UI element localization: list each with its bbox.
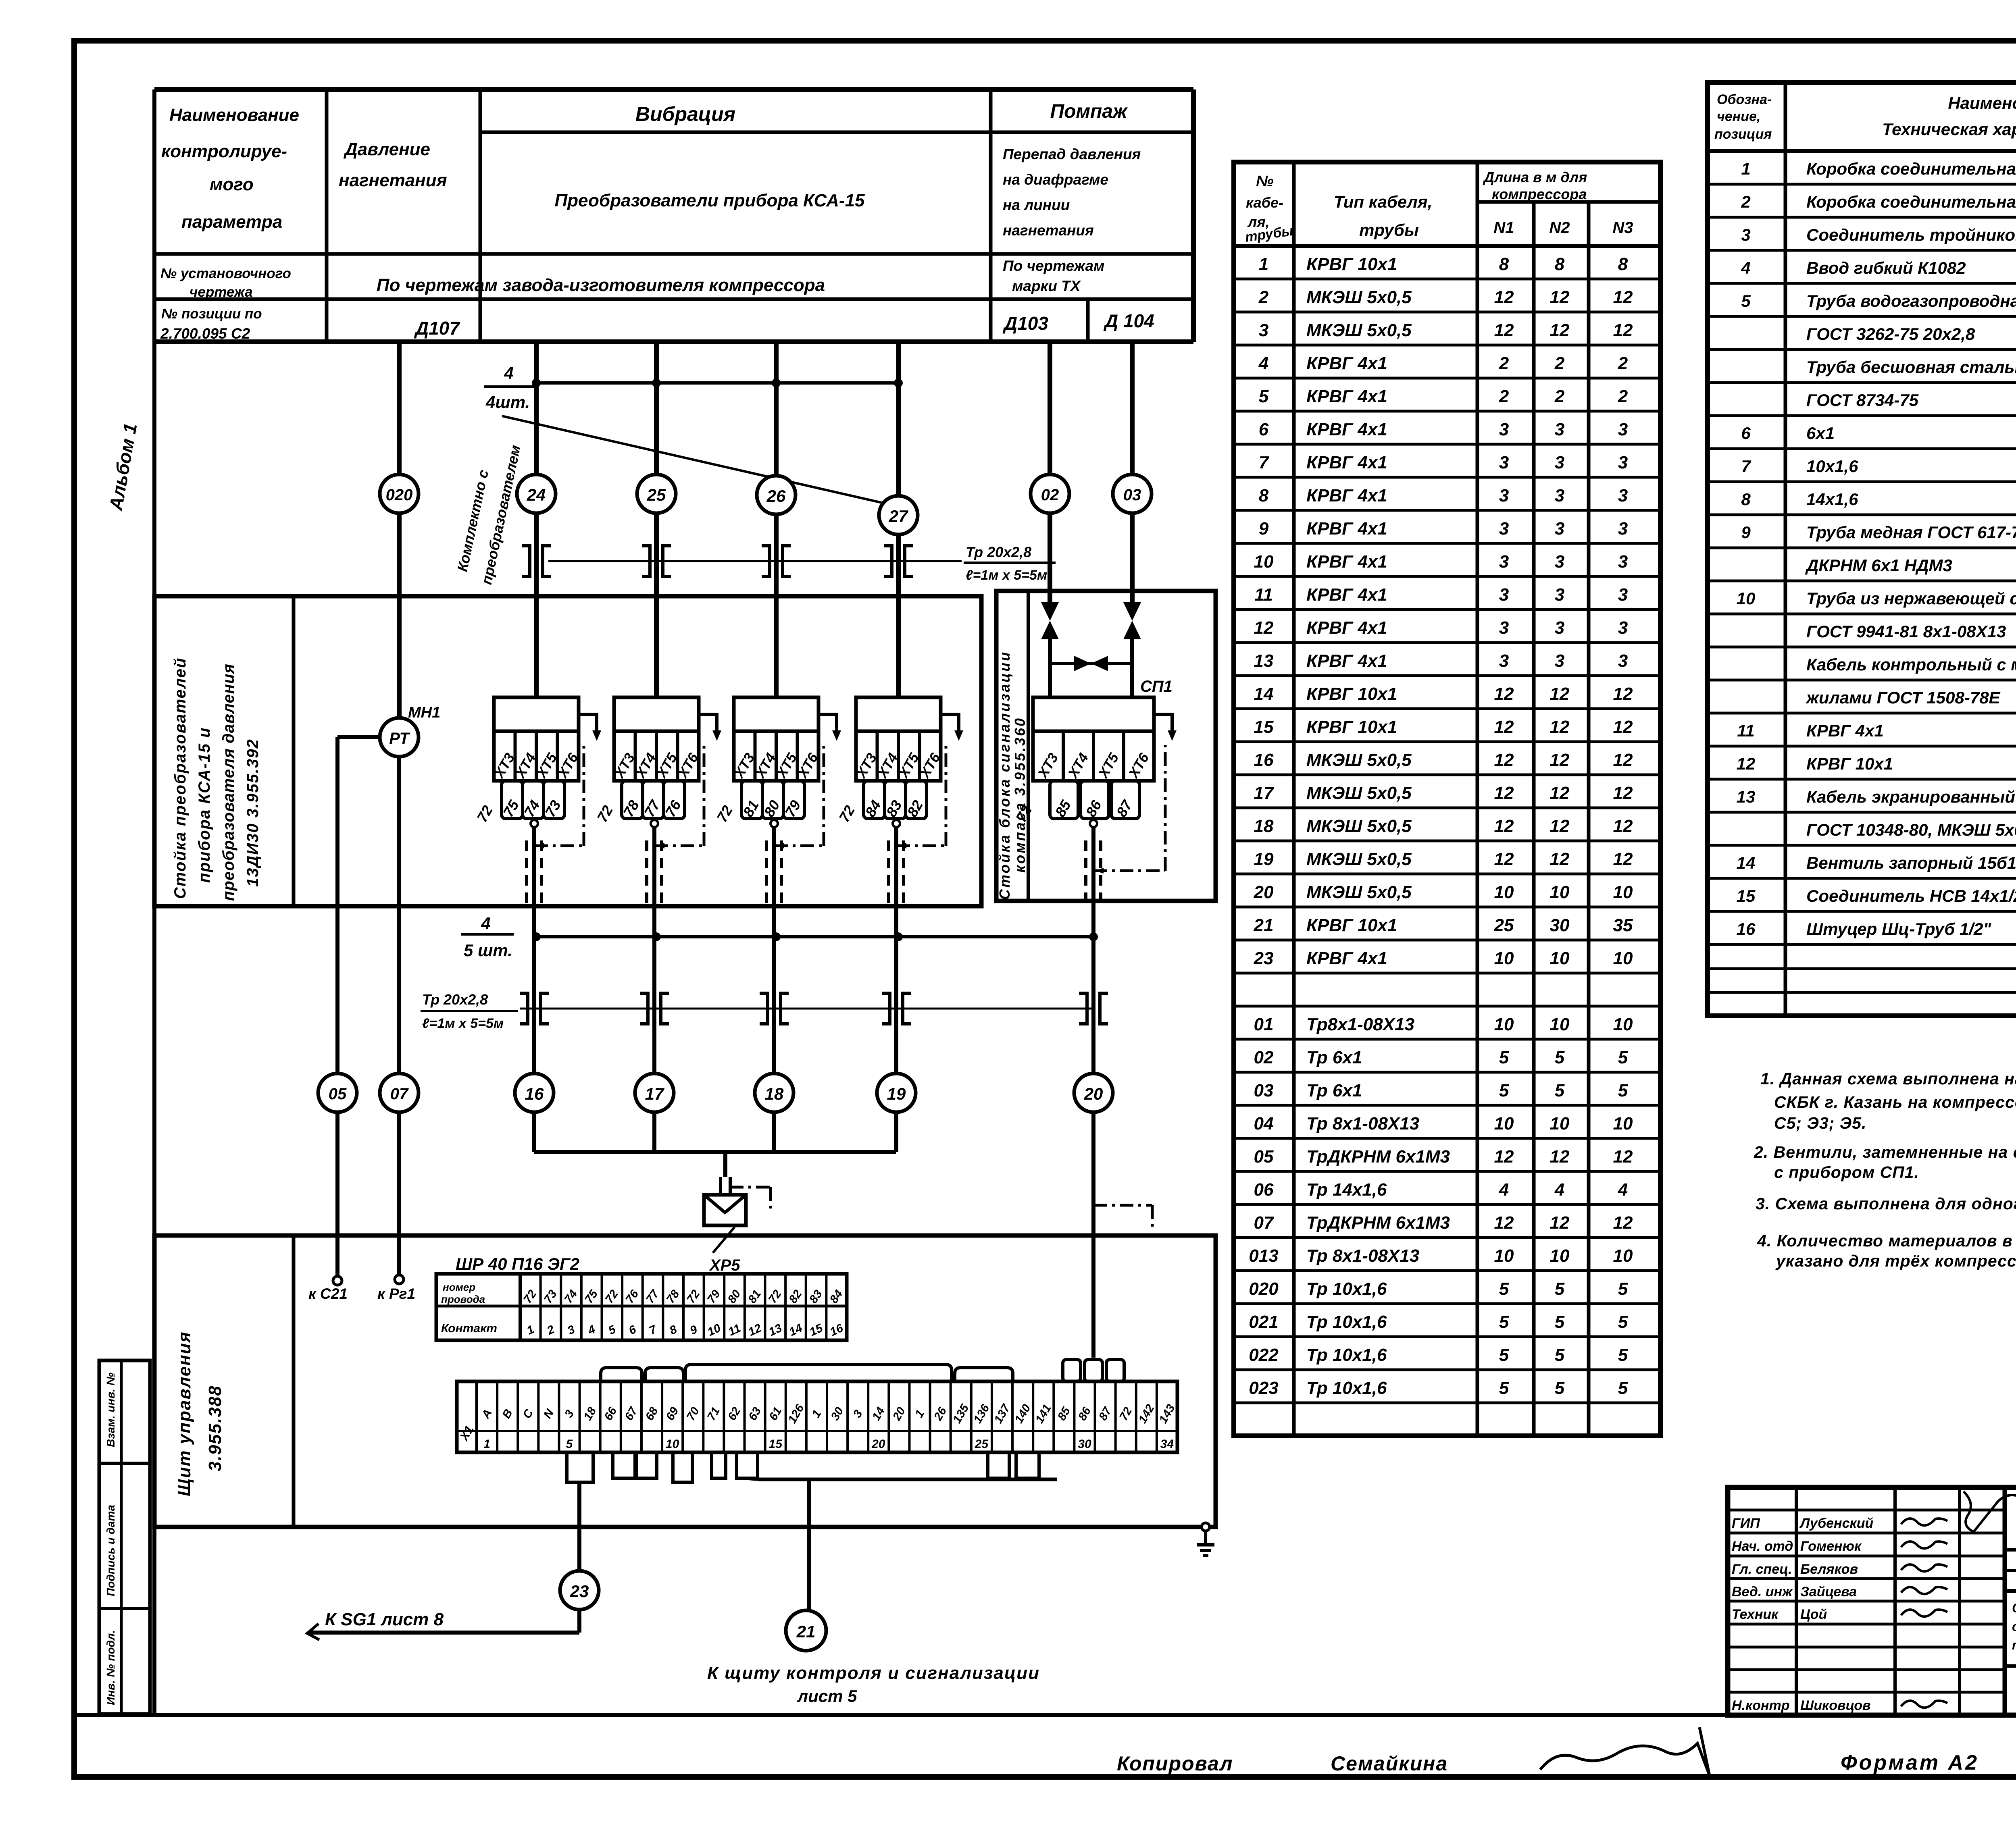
instrument circle 24 [517, 474, 556, 513]
svg-text:с установкой осушки воздуха: с установкой осушки воздуха [2012, 1619, 2016, 1634]
svg-text:6: 6 [1741, 424, 1751, 443]
svg-text:3: 3 [1555, 552, 1564, 572]
pipe couplings row 1 with size line [522, 544, 1056, 583]
svg-text:По чертежам завода-изготовит: По чертежам завода-изготовителя компресс… [377, 275, 825, 295]
svg-text:КРВГ 4х1: КРВГ 4х1 [1806, 721, 1884, 740]
svg-text:12: 12 [1494, 684, 1514, 704]
svg-text:прибора КСА-15 и: прибора КСА-15 и [196, 727, 213, 883]
svg-text:3: 3 [1618, 486, 1628, 505]
svg-text:3: 3 [1499, 585, 1509, 605]
pipe couplings row 2 with size line [421, 991, 1108, 1031]
svg-text:4: 4 [504, 364, 513, 383]
svg-text:5: 5 [1555, 1048, 1565, 1067]
svg-text:04: 04 [1254, 1114, 1274, 1134]
svg-text:Цой: Цой [1800, 1607, 1827, 1622]
svg-text:Тр 14х1,6: Тр 14х1,6 [1306, 1180, 1387, 1200]
table: monitored parameter header table [154, 89, 1193, 342]
svg-text:12: 12 [1494, 287, 1514, 307]
svg-text:5: 5 [1618, 1345, 1628, 1365]
svg-text:8: 8 [1499, 254, 1509, 274]
svg-text:Стойка блока сигнализации: Стойка блока сигнализации [996, 651, 1013, 900]
svg-text:ℓ=1м х 5=5м: ℓ=1м х 5=5м [422, 1016, 504, 1031]
valve on line 02 (darkened) [1041, 602, 1059, 639]
svg-text:Тр 10х1,6: Тр 10х1,6 [1306, 1279, 1387, 1299]
svg-text:КРВГ 10х1: КРВГ 10х1 [1306, 684, 1397, 704]
svg-text:07: 07 [1254, 1213, 1275, 1233]
svg-text:3: 3 [1499, 486, 1509, 505]
svg-text:Зайцева: Зайцева [1800, 1584, 1857, 1599]
svg-text:12: 12 [1613, 750, 1633, 770]
svg-text:3: 3 [1259, 320, 1268, 340]
svg-text:КРВГ 4х1: КРВГ 4х1 [1306, 948, 1387, 968]
svg-text:мого: мого [210, 175, 254, 194]
svg-text:12: 12 [1550, 816, 1570, 836]
wire: rack unit 4 output with capillary marks [889, 745, 946, 937]
svg-text:номер: номер [443, 1281, 475, 1293]
svg-text:на линии: на линии [1003, 197, 1070, 213]
svg-text:3: 3 [1555, 453, 1564, 472]
wire: PT branch to line 05 [337, 737, 379, 1073]
table: cable and tube list [1234, 162, 1660, 1436]
svg-text:МКЭШ 5х0,5: МКЭШ 5х0,5 [1306, 287, 1412, 307]
svg-text:4шт.: 4шт. [485, 393, 530, 412]
instrument circle 020 [380, 474, 419, 513]
wire: collector bus 16-19 to plug XP5 [534, 1112, 896, 1195]
svg-text:15: 15 [1737, 886, 1756, 905]
table: plug ШР 40 П16 ЭГ2 wire/contact numbers [436, 1254, 847, 1340]
svg-text:Труба водогазопроводная: Труба водогазопроводная [1806, 291, 2016, 310]
svg-text:5: 5 [566, 1437, 573, 1451]
svg-text:с прибором СП1.: с прибором СП1. [1774, 1163, 1919, 1181]
svg-text:10: 10 [1737, 589, 1756, 608]
svg-text:020: 020 [386, 486, 413, 504]
svg-text:12: 12 [1550, 1213, 1570, 1233]
svg-text:11: 11 [1254, 585, 1273, 605]
svg-text:5: 5 [1555, 1279, 1565, 1299]
svg-text:нагнетания: нагнетания [339, 171, 447, 190]
svg-text:2: 2 [1554, 387, 1565, 406]
ground at control board [1197, 1523, 1214, 1556]
cable group brackets above strip X1 [601, 1364, 1013, 1381]
terminal block XT3-XT6 of signalling unit СП1 (pins 72,85,86,87) [1012, 678, 1177, 825]
svg-text:10: 10 [1550, 1246, 1570, 1266]
svg-text:12: 12 [1550, 717, 1570, 737]
svg-text:2: 2 [1499, 387, 1509, 406]
svg-text:6: 6 [1259, 420, 1269, 439]
svg-text:ГОСТ 8734-75: ГОСТ 8734-75 [1806, 391, 1919, 410]
svg-text:5: 5 [1555, 1378, 1565, 1398]
wire: СП1 output with capillary marks [1086, 745, 1165, 937]
wire: lines 24-27 from table to transducer racks [536, 342, 898, 697]
table: specification of materials [1708, 83, 2016, 1016]
svg-text:Перепад давления: Перепад давления [1003, 146, 1141, 162]
svg-text:компрессора: компрессора [1492, 186, 1587, 202]
svg-text:3: 3 [1499, 453, 1509, 472]
svg-text:26: 26 [766, 487, 786, 505]
svg-text:Вед. инж: Вед. инж [1732, 1584, 1793, 1599]
svg-text:022: 022 [1249, 1345, 1279, 1365]
svg-text:Труба медная ГОСТ 617-72: Труба медная ГОСТ 617-72 [1806, 523, 2016, 542]
svg-text:7: 7 [1259, 453, 1270, 472]
svg-text:30: 30 [1078, 1437, 1091, 1451]
svg-text:Тр 20х2,8: Тр 20х2,8 [422, 991, 488, 1008]
instrument circle 20 [1074, 1073, 1113, 1112]
label к Рг1 [377, 1285, 415, 1302]
svg-text:Кабель экранированный: Кабель экранированный [1806, 787, 2015, 806]
svg-text:10: 10 [1494, 882, 1514, 902]
svg-text:12: 12 [1550, 1147, 1570, 1167]
svg-text:14: 14 [1254, 684, 1274, 704]
instrument circle 21 [786, 1610, 826, 1651]
svg-text:8: 8 [1618, 254, 1628, 274]
svg-text:Длина в м для: Длина в м для [1483, 169, 1587, 185]
vertical boundary line of schematic field [152, 89, 156, 1715]
svg-text:12: 12 [1494, 1213, 1514, 1233]
svg-text:3: 3 [1741, 225, 1750, 244]
svg-text:КРВГ 4х1: КРВГ 4х1 [1306, 453, 1387, 472]
svg-text:Лубенский: Лубенский [1799, 1516, 1874, 1531]
terminal block XT3-XT6 rack unit 3 (pins 72,81,80,79) [713, 697, 841, 825]
svg-text:3: 3 [1555, 651, 1564, 671]
svg-text:КРВГ 10х1: КРВГ 10х1 [1306, 254, 1397, 274]
svg-text:2: 2 [1618, 354, 1628, 373]
svg-text:9: 9 [1259, 519, 1269, 539]
svg-text:14: 14 [1737, 853, 1756, 872]
svg-text:Тр 8х1-08Х13: Тр 8х1-08Х13 [1306, 1114, 1419, 1134]
svg-text:12: 12 [1613, 1213, 1633, 1233]
box: signalling unit rack 3.955.360 [996, 591, 1216, 901]
svg-text:10: 10 [1613, 1246, 1633, 1266]
svg-text:18: 18 [1254, 816, 1274, 836]
svg-text:КРВГ 4х1: КРВГ 4х1 [1306, 585, 1387, 605]
svg-text:Семайкина: Семайкина [1331, 1752, 1448, 1775]
svg-text:3: 3 [1618, 552, 1628, 572]
svg-text:12: 12 [1613, 287, 1633, 307]
svg-text:КРВГ 4х1: КРВГ 4х1 [1306, 519, 1387, 539]
svg-text:27: 27 [889, 507, 908, 526]
svg-text:8: 8 [1259, 486, 1269, 505]
svg-text:Тип кабеля,: Тип кабеля, [1334, 192, 1433, 211]
svg-text:4: 4 [481, 914, 490, 933]
svg-text:10: 10 [1550, 948, 1570, 968]
wire: lines 02 and 03 from table to valves [1050, 342, 1132, 602]
svg-text:35: 35 [1613, 915, 1633, 935]
svg-text:3: 3 [1499, 552, 1509, 572]
svg-text:4: 4 [1741, 258, 1750, 277]
svg-text:20: 20 [1084, 1084, 1103, 1103]
svg-text:8: 8 [1555, 254, 1565, 274]
table: title block [1728, 1487, 2016, 1715]
svg-text:19: 19 [1254, 849, 1274, 869]
svg-text:1: 1 [1741, 159, 1750, 178]
svg-text:13ДИ30 3.955.392: 13ДИ30 3.955.392 [244, 738, 262, 887]
svg-text:Соединитель тройниковый СМТ 8: Соединитель тройниковый СМТ 8 [1806, 225, 2016, 244]
svg-text:19: 19 [887, 1084, 906, 1103]
svg-text:4: 4 [1618, 1180, 1628, 1200]
bus: group line 5 pcs with junctions [461, 914, 1098, 960]
svg-text:12: 12 [1550, 320, 1570, 340]
svg-text:КРВГ 4х1: КРВГ 4х1 [1306, 552, 1387, 572]
svg-text:020: 020 [1249, 1279, 1279, 1299]
svg-text:17: 17 [1254, 783, 1275, 803]
svg-text:нагнетания: нагнетания [1003, 222, 1094, 239]
svg-text:5: 5 [1618, 1312, 1628, 1332]
svg-text:контролируе-: контролируе- [161, 141, 287, 161]
svg-text:ТрДКРНМ 6х1М3: ТрДКРНМ 6х1М3 [1306, 1213, 1450, 1233]
svg-text:ХР5: ХР5 [709, 1256, 740, 1274]
svg-text:12: 12 [1550, 783, 1570, 803]
instrument circle 19 [877, 1073, 916, 1112]
terminal block XT3-XT6 rack unit 2 (pins 72,78,77,76) [594, 697, 721, 825]
svg-text:4. Количество материалов в: 4. Количество материалов в спецификации … [1757, 1231, 2016, 1250]
svg-text:3: 3 [1499, 651, 1509, 671]
svg-text:6х1: 6х1 [1806, 424, 1835, 443]
svg-text:3: 3 [1618, 651, 1628, 671]
svg-text:3: 3 [1618, 453, 1628, 472]
instrument circle 18 [755, 1073, 793, 1112]
svg-text:07: 07 [390, 1085, 409, 1103]
svg-text:10: 10 [1494, 948, 1514, 968]
label of signalling rack (rotated) [996, 651, 1028, 900]
svg-text:12: 12 [1494, 783, 1514, 803]
svg-text:25: 25 [1494, 915, 1514, 935]
svg-text:2: 2 [1258, 287, 1269, 307]
svg-text:Давление: Давление [343, 139, 430, 159]
svg-text:МКЭШ 5х0,5: МКЭШ 5х0,5 [1306, 816, 1412, 836]
instrument circle 16 [515, 1073, 554, 1112]
svg-text:12: 12 [1613, 320, 1633, 340]
svg-text:10: 10 [1550, 1015, 1570, 1034]
svg-text:10: 10 [1494, 1114, 1514, 1134]
svg-text:позиция: позиция [1714, 127, 1772, 142]
svg-text:Гоменюк: Гоменюк [1800, 1539, 1862, 1554]
svg-text:5: 5 [1259, 387, 1269, 406]
instrument circle 17 [635, 1073, 674, 1112]
svg-text:12: 12 [1550, 684, 1570, 704]
svg-text:МКЭШ 5х0,5: МКЭШ 5х0,5 [1306, 320, 1412, 340]
terminal tabs below strip X1 and cable 23 takeoff [567, 1452, 1039, 1482]
svg-text:№ позиции по: № позиции по [161, 306, 262, 322]
svg-text:12: 12 [1254, 618, 1274, 638]
svg-text:МКЭШ 5х0,5: МКЭШ 5х0,5 [1306, 783, 1412, 803]
svg-text:Щит управления: Щит управления [175, 1331, 194, 1496]
svg-text:N3: N3 [1612, 219, 1633, 237]
svg-text:25: 25 [647, 485, 666, 504]
bottom margin inscriptions [1117, 1727, 1979, 1776]
wire: valves to connecting line [1050, 639, 1132, 697]
svg-text:ГИП: ГИП [1732, 1516, 1760, 1531]
svg-text:10: 10 [1550, 882, 1570, 902]
svg-text:провода: провода [441, 1293, 485, 1305]
svg-text:23: 23 [1254, 948, 1274, 968]
svg-text:Штуцер Шц-Труб 1/2": Штуцер Шц-Труб 1/2" [1806, 919, 1991, 938]
wire: cable 23 down to circle 23 [577, 1482, 581, 1571]
terminal block XT3-XT6 rack unit 4 (pins 72,84,83,82) [835, 697, 963, 825]
svg-text:на диафрагме: на диафрагме [1003, 171, 1108, 188]
capillary mark near line 20 [1093, 1205, 1152, 1230]
svg-text:02: 02 [1254, 1048, 1274, 1067]
notes text block [1754, 1069, 2016, 1270]
label of control board (rotated) [175, 1331, 225, 1496]
svg-text:3: 3 [1499, 519, 1509, 539]
svg-text:Инв. № подл.: Инв. № подл. [104, 1630, 117, 1705]
wire: connector line to circle 21 [744, 1478, 1057, 1610]
left margin stamp boxes [99, 1360, 150, 1714]
instrument circle 27 [879, 496, 918, 535]
label Альбом 1 [105, 422, 141, 512]
svg-text:Техническая характеристика: Техническая характеристика [1882, 120, 2016, 139]
svg-text:12: 12 [1613, 717, 1633, 737]
instrument circle 03 [1113, 474, 1152, 513]
svg-text:3: 3 [1618, 618, 1628, 638]
svg-text:к С21: к С21 [308, 1285, 348, 1302]
svg-text:3: 3 [1499, 618, 1509, 638]
svg-text:3: 3 [1499, 420, 1509, 439]
svg-text:РТ: РТ [389, 730, 410, 747]
wire: PT down to line 07 [397, 757, 401, 1073]
svg-text:ДКРНМ 6х1 НДМ3: ДКРНМ 6х1 НДМ3 [1805, 556, 1952, 575]
label К щиту контроля и сигнализации лист 5 [707, 1663, 1040, 1706]
svg-text:10: 10 [666, 1437, 679, 1451]
svg-text:14х1,6: 14х1,6 [1806, 490, 1858, 509]
svg-text:Нач. отд: Нач. отд [1732, 1539, 1793, 1554]
svg-text:преобразователя давления: преобразователя давления [220, 664, 237, 901]
svg-text:10: 10 [1613, 1114, 1633, 1134]
svg-text:10: 10 [1613, 1015, 1633, 1034]
svg-text:12: 12 [1550, 287, 1570, 307]
svg-text:10: 10 [1613, 882, 1633, 902]
svg-text:3.955.388: 3.955.388 [205, 1385, 225, 1471]
svg-text:Станция воздушно-компрессорная: Станция воздушно-компрессорная [2012, 1601, 2016, 1615]
svg-text:2.700.095 С2: 2.700.095 С2 [160, 325, 250, 342]
svg-text:23: 23 [570, 1582, 589, 1601]
svg-text:2: 2 [1741, 192, 1750, 211]
svg-text:13: 13 [1254, 651, 1274, 671]
svg-text:ГОСТ 3262-75 20х2,8: ГОСТ 3262-75 20х2,8 [1806, 324, 1975, 343]
svg-text:Кабель контрольный с медными: Кабель контрольный с медными [1806, 655, 2016, 674]
svg-text:12: 12 [1613, 783, 1633, 803]
leader line to circle 27 [502, 416, 887, 504]
svg-text:21: 21 [796, 1622, 816, 1641]
wire: rack unit 3 output with capillary marks [766, 745, 824, 937]
svg-text:10: 10 [1254, 552, 1274, 572]
svg-text:05: 05 [1254, 1147, 1274, 1167]
svg-text:16: 16 [1737, 919, 1756, 938]
svg-text:10: 10 [1494, 1015, 1514, 1034]
svg-text:12: 12 [1494, 750, 1514, 770]
svg-text:МКЭШ 5х0,5: МКЭШ 5х0,5 [1306, 849, 1412, 869]
svg-text:Коробка соединительная У615: Коробка соединительная У615 [1806, 192, 2016, 211]
svg-text:4: 4 [1258, 354, 1268, 373]
svg-text:Обозна-: Обозна- [1717, 92, 1772, 107]
svg-text:СКБК г. Казань на компрессо: СКБК г. Казань на компрессор ВЦ 32-100/9… [1774, 1093, 2016, 1111]
svg-text:МН1: МН1 [408, 704, 440, 721]
svg-text:Взам. инв. №: Взам. инв. № [104, 1373, 117, 1447]
svg-text:10: 10 [1613, 948, 1633, 968]
terminal strip X1 of control board [457, 1381, 1178, 1452]
svg-text:2. Вентили, затемненные на с: 2. Вентили, затемненные на схеме, постав… [1754, 1143, 2016, 1161]
svg-text:Ввод гибкий К1082: Ввод гибкий К1082 [1806, 258, 1966, 277]
svg-text:Коробка соединительная У614: Коробка соединительная У614 [1806, 159, 2016, 178]
svg-text:Помпаж: Помпаж [1050, 101, 1128, 122]
svg-text:Шиковцов: Шиковцов [1800, 1698, 1871, 1713]
svg-text:10: 10 [1550, 1114, 1570, 1134]
bus: group line 4 pcs with junctions [484, 364, 903, 412]
svg-text:N1: N1 [1493, 219, 1514, 237]
instrument circle 26 [757, 476, 796, 514]
svg-text:КРВГ 4х1: КРВГ 4х1 [1306, 354, 1387, 373]
terminal block XT3-XT6 rack unit 1 (pins 72,75,74,73) [473, 697, 601, 825]
svg-text:ГОСТ 9941-81 8х1-08Х13: ГОСТ 9941-81 8х1-08Х13 [1806, 622, 2006, 641]
svg-text:02: 02 [1041, 486, 1059, 504]
svg-text:24: 24 [527, 485, 546, 504]
svg-text:№ установочного: № установочного [160, 266, 291, 281]
pressure transducer PT with label MH1 [380, 704, 440, 757]
instrument circle 07 [380, 1073, 419, 1112]
svg-text:ШР 40 П16 ЭГ2: ШР 40 П16 ЭГ2 [456, 1254, 579, 1273]
instrument circle 02 [1031, 474, 1069, 513]
svg-text:34: 34 [1160, 1437, 1174, 1451]
svg-text:023: 023 [1249, 1378, 1278, 1398]
plug connector XP5 [704, 1195, 746, 1274]
svg-text:013: 013 [1249, 1246, 1278, 1266]
svg-text:4: 4 [1554, 1180, 1564, 1200]
svg-text:8: 8 [1741, 490, 1751, 509]
svg-text:Вибрация: Вибрация [635, 103, 735, 125]
svg-text:трубы: трубы [1359, 220, 1419, 239]
svg-text:1. Данная схема выполнена н: 1. Данная схема выполнена на основании ч… [1760, 1069, 2016, 1088]
svg-text:Труба из нержавеющей стали: Труба из нержавеющей стали [1806, 589, 2016, 608]
svg-text:3: 3 [1618, 585, 1628, 605]
instrument circle 05 [318, 1073, 357, 1112]
svg-text:7: 7 [1741, 457, 1751, 476]
svg-text:5: 5 [1499, 1081, 1509, 1100]
svg-text:МКЭШ 5х0,5: МКЭШ 5х0,5 [1306, 750, 1412, 770]
svg-text:ℓ=1м х 5=5м: ℓ=1м х 5=5м [966, 568, 1047, 583]
svg-text:01: 01 [1254, 1015, 1274, 1034]
svg-text:5: 5 [1618, 1081, 1628, 1100]
label К SG1 лист 8 [323, 1610, 476, 1632]
wire: rack unit 1 output with capillary marks [527, 745, 584, 937]
svg-text:15: 15 [769, 1437, 783, 1451]
svg-text:5: 5 [1618, 1378, 1628, 1398]
svg-text:12: 12 [1494, 1147, 1514, 1167]
svg-text:5: 5 [1499, 1279, 1509, 1299]
svg-text:12: 12 [1494, 816, 1514, 836]
svg-text:N2: N2 [1549, 219, 1570, 237]
svg-text:Тр8х1-08Х13: Тр8х1-08Х13 [1306, 1015, 1414, 1034]
svg-text:КРВГ 4х1: КРВГ 4х1 [1306, 618, 1387, 638]
svg-text:КРВГ 4х1: КРВГ 4х1 [1306, 387, 1387, 406]
svg-text:К щиту контроля и сигнал: К щиту контроля и сигнализации [707, 1663, 1040, 1683]
svg-text:9: 9 [1741, 523, 1751, 542]
svg-text:КРВГ 4х1: КРВГ 4х1 [1306, 420, 1387, 439]
svg-text:12: 12 [1494, 717, 1514, 737]
svg-text:кабе-: кабе- [1246, 194, 1283, 211]
wire: line 020 from table to PT [397, 342, 402, 718]
svg-text:Вентиль запорный 15б1п Ду 15: Вентиль запорный 15б1п Ду 15 Ру 1,6 [1806, 853, 2016, 872]
wire: line 20 into control board [1091, 1112, 1095, 1358]
label Комплектно с преобразователем [454, 443, 524, 586]
label к С21 [308, 1285, 348, 1302]
svg-text:чертежа: чертежа [190, 284, 253, 300]
svg-text:12: 12 [1550, 750, 1570, 770]
svg-text:3: 3 [1618, 519, 1628, 539]
svg-text:12: 12 [1494, 320, 1514, 340]
svg-text:Техник: Техник [1732, 1607, 1779, 1622]
wire: rack unit 2 output with capillary marks [647, 745, 704, 937]
svg-text:ТрДКРНМ 6х1М3: ТрДКРНМ 6х1М3 [1306, 1147, 1450, 1167]
